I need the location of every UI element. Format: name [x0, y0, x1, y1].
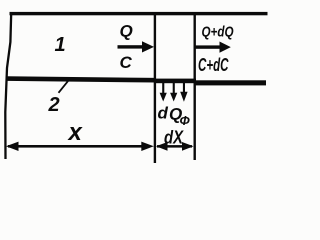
wire: bottom boundary line of channel, left segment [7, 76, 157, 82]
svg-text:2: 2 [48, 94, 60, 116]
svg-text:1: 1 [55, 34, 66, 56]
wire: left edge of channel (hand-drawn, slightly tilted) [5, 13, 11, 159]
wire: seepage arrow 3 (downward) [180, 83, 187, 102]
svg-text:x: x [67, 119, 84, 146]
wire: x dimension arrow (double-headed) [6, 142, 154, 151]
svg-text:d: d [158, 104, 169, 123]
wire: outflow arrow [196, 42, 231, 53]
wire: seepage arrow 2 (downward) [170, 83, 177, 102]
wire: dX dimension arrow (double-headed, outward) [156, 142, 194, 151]
svg-text:Q+dQ: Q+dQ [202, 24, 235, 40]
wire: left vertical line of control-volume slice [154, 13, 156, 163]
svg-text:Ф: Ф [180, 113, 191, 128]
svg-text:C+dC: C+dC [198, 54, 229, 75]
wire: leader line from label 2 to bed [59, 80, 70, 93]
wire: bottom boundary line of channel, segment inside slice [154, 79, 196, 84]
svg-text:C: C [120, 53, 133, 72]
wire: top boundary line of channel [10, 12, 268, 15]
wire: bottom boundary line of channel, right segment [194, 80, 266, 85]
wire: seepage arrow 1 (downward) [160, 83, 167, 102]
svg-text:Q: Q [120, 22, 133, 41]
wire: inflow arrow [118, 41, 155, 52]
diagram: channel flow control-volume figure [0, 0, 284, 167]
wire: right vertical line of control-volume slice [194, 13, 196, 160]
